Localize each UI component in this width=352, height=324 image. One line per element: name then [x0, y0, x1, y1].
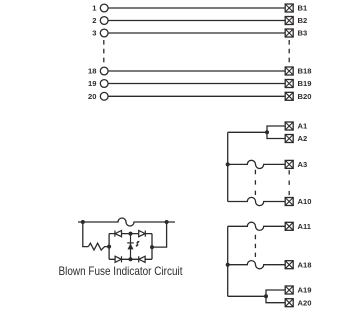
node A2: [285, 135, 293, 143]
svg-text:Blown Fuse Indicator Circuit: Blown Fuse Indicator Circuit: [59, 265, 184, 278]
wire trunk group A1-A10: [227, 132, 229, 201]
svg-text:B1: B1: [298, 4, 308, 13]
wire to A20: [266, 296, 285, 302]
svg-text:19: 19: [88, 79, 96, 88]
svg-text:3: 3: [92, 29, 96, 38]
diode D4 bottom-right: [139, 256, 145, 262]
svg-text:B19: B19: [298, 79, 312, 88]
continuation dashes fuse column group1: [254, 170, 256, 196]
svg-text:A3: A3: [298, 160, 308, 169]
terminal row 1: [100, 4, 293, 12]
bridge frame: [109, 234, 152, 260]
node A19: [285, 286, 293, 294]
svg-text:A10: A10: [298, 197, 312, 206]
terminal row 2: [100, 17, 293, 25]
node A20: [285, 299, 293, 307]
svg-text:B3: B3: [298, 29, 308, 38]
svg-text:2: 2: [92, 16, 96, 25]
junction dot bridge top: [129, 232, 133, 236]
junction dot bridge right: [150, 245, 154, 249]
fuse F-A3: [228, 160, 285, 168]
wire left branch: [83, 222, 89, 247]
svg-text:18: 18: [88, 67, 96, 76]
junction dot A19/A20: [264, 294, 268, 298]
node A18: [285, 261, 293, 269]
terminal row 3: [100, 29, 293, 37]
svg-text:1: 1: [92, 4, 97, 13]
junction dot right: [165, 220, 169, 224]
terminal row 18: [100, 67, 293, 75]
svg-text:A18: A18: [298, 260, 312, 269]
continuation dashes left: [103, 40, 105, 62]
svg-text:A1: A1: [298, 122, 308, 131]
continuation dashes node column group1: [288, 170, 290, 195]
resistor R1: [88, 243, 109, 250]
node A11: [285, 222, 293, 230]
wire to A19: [266, 290, 285, 296]
node A3: [285, 160, 293, 168]
svg-text:B20: B20: [298, 92, 312, 101]
terminal row 19: [100, 80, 293, 88]
svg-text:B2: B2: [298, 16, 308, 25]
svg-text:20: 20: [88, 92, 96, 101]
junction dot A3: [226, 162, 230, 166]
wire bracket feed A1/A2: [228, 131, 267, 133]
continuation dashes right: [288, 40, 290, 62]
LED light arrow: [136, 241, 138, 246]
wire bracket feed A19/A20: [228, 295, 266, 297]
fuse F-A10: [228, 197, 285, 205]
junction dot bridge bottom: [129, 257, 133, 261]
wire trunk group A11-A20: [227, 226, 229, 296]
wire right branch: [152, 222, 167, 247]
svg-text:A2: A2: [298, 134, 308, 143]
junction dot A18: [226, 263, 230, 267]
svg-text:A11: A11: [298, 222, 312, 231]
fuse F-A11: [228, 222, 285, 230]
node A1: [285, 122, 293, 130]
fuse F1 top wire: [78, 218, 175, 226]
svg-text:B18: B18: [298, 67, 312, 76]
svg-text:A19: A19: [298, 286, 312, 295]
diode D1 top-left: [115, 231, 122, 237]
terminal row 20: [100, 92, 293, 100]
junction dot A1/A2: [265, 130, 269, 134]
svg-text:A20: A20: [298, 298, 312, 307]
wire to A1: [267, 126, 285, 132]
diode D3 bottom-left: [115, 256, 121, 262]
junction dot bridge left: [107, 245, 111, 249]
diode D2 top-right: [139, 231, 146, 237]
junction dot left: [81, 220, 85, 224]
node A10: [285, 198, 293, 206]
LED DS1: [127, 234, 134, 260]
wire to A2: [267, 132, 285, 138]
continuation dashes fuse column group2: [254, 235, 256, 257]
fuse F-A18: [228, 261, 285, 269]
